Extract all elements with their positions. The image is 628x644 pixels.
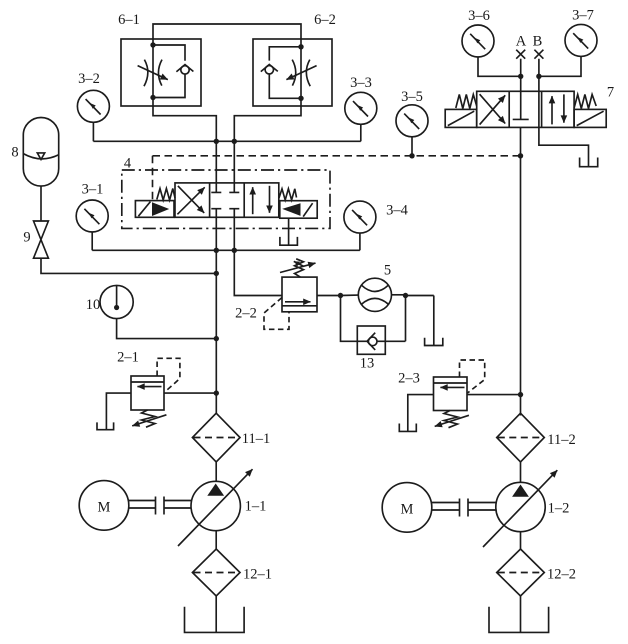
check valve 13 symbol: [368, 337, 377, 346]
svg-text:A: A: [516, 34, 527, 50]
wire valve 4 port P down: [215, 217, 217, 250]
solenoid valve 4 right: [280, 201, 317, 219]
svg-text:3–1: 3–1: [82, 182, 104, 198]
wire 2-1 inlet: [164, 392, 216, 394]
relief valve 2-2 body: [282, 277, 317, 312]
accumulator 8: [23, 118, 58, 187]
pressure gauge 3-6: [462, 25, 494, 57]
wire 6-1 check-valve bypass loop: [153, 45, 185, 98]
svg-text:8: 8: [11, 145, 18, 161]
pressure gauge 3-2: [77, 90, 109, 122]
pressure gauge 3-7: [565, 24, 597, 56]
svg-text:12–2: 12–2: [547, 567, 576, 583]
svg-text:3–3: 3–3: [350, 75, 372, 91]
spring 2-1: [142, 410, 156, 427]
svg-text:6–1: 6–1: [118, 12, 140, 28]
wire flow meter to right node: [392, 294, 406, 296]
svg-text:3–5: 3–5: [401, 89, 423, 105]
pump 1-2: [496, 482, 545, 531]
tank after flow meter: [425, 338, 443, 346]
node y141 left port: [214, 139, 219, 144]
wire filter 11-2 to pump 1-2: [520, 462, 522, 483]
svg-text:2–3: 2–3: [398, 371, 420, 387]
svg-text:3–7: 3–7: [572, 8, 594, 24]
filter 12-2: [497, 549, 545, 596]
node y250 P: [214, 248, 219, 253]
test point X at B: [534, 50, 543, 59]
filter 12-1: [192, 549, 240, 596]
directional valve 7 body: [477, 91, 574, 127]
svg-text:1–1: 1–1: [245, 499, 267, 515]
flow meter 5: [358, 278, 391, 311]
valve 7 left position crossed arrows: [480, 95, 506, 124]
svg-text:3–6: 3–6: [468, 8, 490, 24]
svg-text:5: 5: [384, 263, 391, 279]
valve 4 left position crossed arrows: [177, 187, 204, 214]
wire filter 11-1 to pump 1-1: [215, 462, 217, 482]
svg-text:3–2: 3–2: [78, 71, 100, 87]
node 2-1 inlet: [214, 390, 219, 395]
pilot dashed 2-1: [157, 358, 180, 392]
node dashed/right main: [518, 153, 523, 158]
wire flow meter line to tank: [406, 296, 434, 346]
relief valve 2-1 body: [131, 376, 164, 410]
thermometer 10: [100, 285, 133, 318]
wire thermometer to main line y338: [117, 319, 217, 339]
svg-text:B: B: [533, 34, 543, 50]
pilot dashed 2-2: [264, 298, 289, 330]
spring valve 7 right: [574, 95, 596, 109]
svg-text:10: 10: [86, 297, 101, 313]
wire 2-1 drain to tank: [106, 393, 131, 430]
motor M left: [79, 481, 129, 531]
svg-text:11–2: 11–2: [547, 432, 575, 448]
test point X at A: [516, 50, 525, 59]
valve 4 right position parallel arrows: [252, 187, 254, 214]
wire valve 9 to main line y273: [41, 258, 216, 273]
blocked port T-bar in valve 7 center: [513, 118, 529, 120]
filter 11-2: [497, 413, 545, 462]
svg-text:M: M: [401, 502, 414, 518]
wire 2-3 inlet: [467, 394, 521, 396]
svg-text:2–1: 2–1: [117, 350, 139, 366]
shut-off valve 9: [34, 221, 49, 258]
wire left main pressure line: [215, 250, 217, 413]
wire filter 12-2 into tank: [520, 596, 522, 632]
valve 4 center position blocked ports: [211, 183, 239, 217]
svg-text:4: 4: [124, 156, 132, 172]
valve 4 drain wire: [288, 218, 290, 245]
wire 6-2 check-valve bypass loop: [269, 47, 301, 99]
svg-text:3–4: 3–4: [386, 203, 409, 219]
relief valve 2-3 body: [434, 377, 468, 411]
tank at 2-1 drain: [97, 422, 114, 429]
tank at valve 7 B drain: [580, 158, 598, 167]
spring valve 7 left: [456, 95, 477, 109]
node flow meter outlet: [403, 293, 408, 298]
proportional valve 4 body: [175, 183, 279, 217]
wire 6-2 to valve 4 port B: [234, 106, 301, 183]
solenoid valve 4 left: [135, 201, 174, 218]
flow control valve 6-1 outer box: [121, 39, 201, 106]
tank at valve 4 drain: [280, 237, 298, 245]
spring valve 4 left: [157, 189, 175, 201]
wire vertical through 6-2: [300, 39, 302, 106]
valve 7 right position parallel arrows: [551, 96, 553, 124]
solenoid valve 7 left: [445, 109, 477, 127]
node y141 right port: [232, 139, 237, 144]
node y338: [214, 336, 219, 341]
node y273: [214, 271, 219, 276]
tank bottom left: [185, 607, 245, 633]
wire B through valve 7 to tank: [539, 59, 589, 166]
node 6-2 bottom: [298, 96, 303, 101]
pressure gauge 3-5: [396, 105, 428, 137]
node 6-2 top: [298, 44, 303, 49]
wire 2-3 drain to tank: [408, 395, 434, 432]
pressure gauge 3-4: [344, 201, 376, 233]
node dashed/3-5: [409, 153, 414, 158]
svg-text:7: 7: [607, 85, 614, 101]
pilot dashed line y156: [153, 155, 521, 157]
spring 2-2: [295, 259, 304, 277]
node flow meter inlet: [338, 293, 343, 298]
wire gauge 3-6 to A line: [478, 57, 521, 76]
pilot dashed drop to valve 4: [152, 156, 154, 200]
pilot dashed 2-3: [460, 360, 485, 393]
svg-text:13: 13: [360, 356, 375, 372]
wire right main pressure line: [520, 127, 522, 415]
wire vertical through 6-1: [152, 39, 154, 106]
tank bottom right: [489, 607, 549, 633]
motor M right: [382, 483, 432, 533]
throttle symbol 6-1: [144, 60, 148, 87]
spring 2-3: [444, 411, 458, 428]
svg-text:1–2: 1–2: [548, 501, 570, 517]
coupling left: [129, 497, 191, 515]
svg-text:M: M: [98, 500, 111, 516]
tank at 2-3 drain: [399, 424, 416, 432]
dash-dot enclosure of valve 4: [122, 170, 330, 228]
wire 2-2 outlet: [317, 295, 341, 297]
check valve 13 box: [357, 326, 385, 354]
wire T port to relief 2-2: [234, 250, 282, 295]
wire gauge line y141: [93, 140, 360, 142]
node y250 T: [232, 248, 237, 253]
node A line: [518, 74, 523, 79]
wire pump 1-2 to filter 12-2: [520, 532, 522, 549]
svg-text:12–1: 12–1: [243, 567, 272, 583]
pump 1-1: [191, 481, 240, 530]
wire accumulator to valve 9: [40, 186, 42, 221]
wire pump 1-1 to filter 12-1: [215, 531, 217, 549]
filter 11-1: [192, 413, 240, 462]
check valve in 6-1: [181, 66, 189, 74]
coupling right: [432, 499, 496, 517]
node B line: [536, 74, 541, 79]
pressure gauge 3-3: [345, 92, 377, 124]
wire filter 12-1 into tank: [215, 596, 217, 632]
spring valve 4 right: [279, 189, 297, 200]
wire valve 4 port T down: [233, 217, 235, 250]
wire A into valve 7: [520, 59, 522, 120]
wire 6-1 to valve 4 port A: [153, 106, 216, 183]
svg-text:6–2: 6–2: [314, 12, 336, 28]
wire bypass loop check valve 13: [341, 296, 406, 342]
svg-text:9: 9: [23, 230, 30, 246]
solenoid valve 7 right: [574, 109, 606, 127]
svg-text:11–1: 11–1: [242, 431, 270, 447]
wire gauge line y250: [92, 249, 360, 251]
node 6-1 bottom: [150, 95, 155, 100]
wire gauge 3-7 to B line: [539, 57, 581, 77]
pressure gauge 3-1: [76, 200, 108, 232]
wire top connector between 6-1 and 6-2: [153, 24, 301, 39]
throttle symbol 6-2: [306, 60, 310, 87]
svg-text:2–2: 2–2: [235, 306, 257, 322]
flow control valve 6-2 outer box: [253, 39, 332, 106]
node 2-3 inlet: [518, 392, 523, 397]
node 6-1 top: [150, 42, 155, 47]
check valve in 6-2: [265, 66, 273, 74]
